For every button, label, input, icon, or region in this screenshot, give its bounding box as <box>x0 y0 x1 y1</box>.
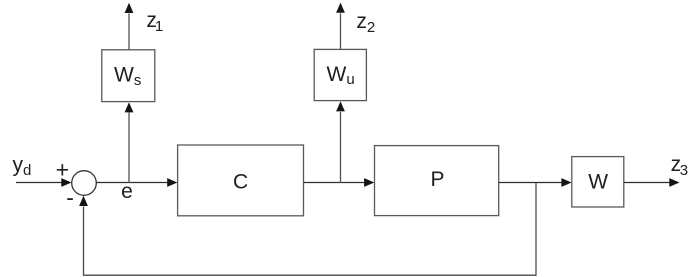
wire input to summing junction <box>16 182 62 184</box>
block Wu <box>314 49 366 100</box>
wire Ws to z1 output <box>128 14 130 50</box>
svg-text:W: W <box>588 170 608 193</box>
arrowhead into Ws bottom <box>125 102 134 112</box>
arrowhead into P <box>364 178 374 187</box>
arrowhead z1 <box>125 3 134 13</box>
arrowhead z2 <box>336 3 345 13</box>
block Ws <box>102 50 155 102</box>
arrowhead into summing junction <box>61 178 71 187</box>
summing junction S1 <box>72 171 97 196</box>
wire branch up to Wu <box>340 112 342 183</box>
svg-text:C: C <box>233 170 248 193</box>
arrowhead z3 <box>669 178 679 187</box>
feedback wire from node after P down and left <box>84 183 537 276</box>
svg-text:e: e <box>121 180 133 203</box>
svg-text:+: + <box>56 157 69 183</box>
svg-text:P: P <box>430 168 444 191</box>
block C <box>178 145 304 216</box>
arrowhead into summing junction bottom <box>79 196 88 206</box>
wire summing junction to C <box>96 182 168 184</box>
arrowhead into Wu bottom <box>336 101 345 111</box>
wire W to z3 output <box>624 182 670 184</box>
wire branch up to Ws <box>128 113 130 184</box>
arrowhead into C <box>167 178 177 187</box>
wire P to W <box>499 182 562 184</box>
wire C to P <box>304 182 365 184</box>
wire Wu to z2 output <box>340 13 342 49</box>
block W <box>572 157 624 207</box>
arrowhead into W <box>561 178 571 187</box>
block P <box>375 146 499 216</box>
